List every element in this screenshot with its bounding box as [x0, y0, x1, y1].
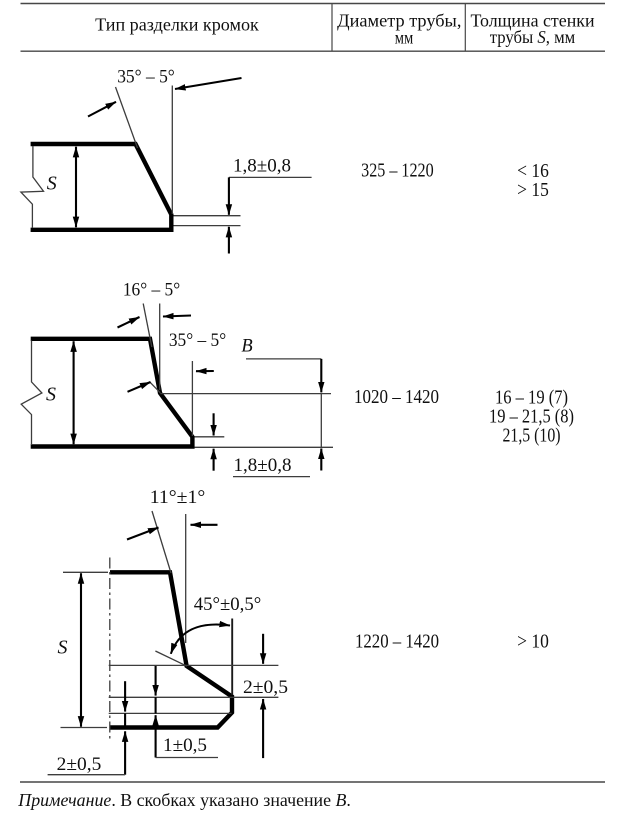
svg-text:325 – 1220: 325 – 1220: [361, 160, 434, 182]
row2 35deg junction arrow: [128, 382, 151, 392]
svg-text:2±0,5: 2±0,5: [57, 754, 102, 775]
svg-text:35° – 5°: 35° – 5°: [169, 330, 226, 351]
row1 dimension up arrow: [228, 227, 230, 254]
row2 16deg arrow left: [118, 317, 140, 328]
svg-text:B: B: [241, 337, 252, 357]
row3 nose height up arrow: [155, 715, 157, 757]
svg-text:Тип разделки кромок: Тип разделки кромок: [95, 14, 259, 34]
svg-text:1±0,5: 1±0,5: [163, 735, 207, 756]
row3 horizontal line at nose bottom: [109, 712, 232, 714]
svg-text:> 15: > 15: [517, 179, 549, 201]
row2 root gap down arrow: [213, 413, 215, 435]
row2 junction horizontal extension line (B top): [160, 393, 331, 395]
svg-text:35° – 5°: 35° – 5°: [117, 67, 175, 88]
row3 bottom gap down arrow: [124, 681, 126, 711]
table bottom rule: [20, 781, 605, 783]
svg-text:2±0,5: 2±0,5: [243, 677, 288, 698]
row3 11deg vertical reference line: [185, 514, 187, 643]
svg-text:Примечание. В скобках указано: Примечание. В скобках указано значение В…: [17, 790, 351, 810]
row3 right gap down arrow: [262, 634, 264, 664]
row3 bottom gap up arrow: [124, 731, 126, 774]
svg-text:S: S: [46, 384, 56, 406]
row3 11deg bevel extension line: [152, 511, 171, 573]
row1 dimension down arrow: [228, 177, 230, 214]
row3 horizontal line at nose top: [109, 696, 279, 698]
row1 angle arrow left: [88, 102, 116, 117]
row2 root gap label underline: [233, 476, 310, 478]
row1 root face upper extension line: [174, 215, 241, 217]
row2 16deg arrow right: [163, 316, 191, 317]
row3 nose height down arrow: [155, 666, 157, 696]
row3 nose face extension line: [231, 619, 233, 696]
row3 bottom gap leader: [48, 774, 126, 776]
row2 B dimension connector line: [320, 394, 322, 448]
row1 angle arrow right: [175, 78, 242, 89]
row2 35deg vertical reference line: [191, 361, 193, 436]
row3 45deg chamfer extension line: [155, 651, 187, 666]
svg-text:1020 – 1420: 1020 – 1420: [354, 386, 439, 408]
row2 root face upper extension line: [195, 436, 225, 438]
svg-text:мм: мм: [395, 28, 414, 48]
row2 B down arrow: [320, 359, 322, 393]
table top rule: [21, 3, 606, 5]
row3 right gap up arrow: [262, 699, 264, 758]
row2 bottom extension line: [195, 446, 334, 448]
row3 pipe edge outline: [110, 572, 232, 727]
row1 wall thickness dimension arrow S: [75, 147, 77, 227]
row1 pipe edge outline: [31, 144, 172, 230]
svg-text:1220 – 1420: 1220 – 1420: [355, 630, 439, 652]
svg-text:S: S: [47, 173, 57, 195]
row3 nose height label underline: [156, 757, 218, 759]
row2 35deg bevel extension line: [150, 382, 161, 393]
svg-text:> 10: > 10: [517, 630, 549, 652]
row2 16deg vertical reference line: [159, 304, 161, 391]
row2 left break (zigzag): [21, 341, 42, 446]
svg-text:1,8±0,8: 1,8±0,8: [233, 156, 291, 177]
row2 wall thickness dimension arrow S: [73, 341, 75, 444]
row2 16deg bevel extension line: [143, 304, 152, 348]
row2 root gap up arrow: [213, 449, 215, 471]
row2 B up arrow: [320, 449, 322, 471]
row3 nose height connector line: [155, 697, 157, 713]
row3 11deg arrow right: [191, 524, 218, 526]
header column separator 1: [331, 4, 333, 52]
row1 vertical angle reference line: [171, 86, 173, 215]
svg-text:трубы S, мм: трубы S, мм: [490, 27, 576, 47]
svg-text:11°±1°: 11°±1°: [150, 487, 206, 508]
row1 left break (zigzag): [21, 146, 44, 228]
row1 root face lower extension line: [174, 225, 241, 227]
svg-text:45°±0,5°: 45°±0,5°: [194, 594, 262, 615]
row3 45deg curved double arrow: [171, 625, 230, 654]
row3 wall thickness dimension arrow S: [80, 573, 82, 727]
header column separator 2: [464, 4, 466, 52]
svg-text:S: S: [58, 637, 68, 659]
svg-text:16° – 5°: 16° – 5°: [123, 280, 180, 301]
row2 pipe edge outline: [31, 339, 193, 447]
row1 dimension leader horizontal: [229, 176, 312, 178]
table header bottom rule: [21, 50, 606, 52]
row3 pipe axis centerline: [109, 558, 111, 741]
row3 S top extension line: [63, 571, 108, 573]
row2 B leader horizontal: [246, 358, 321, 360]
svg-text:1,8±0,8: 1,8±0,8: [234, 455, 292, 476]
svg-text:21,5 (10): 21,5 (10): [503, 424, 561, 446]
row2 35deg arrow right: [196, 370, 214, 372]
row3 horizontal line at chamfer root: [109, 664, 279, 666]
row3 bottom gap connector line: [124, 713, 126, 727]
row1 bevel extension line: [116, 87, 138, 148]
row3 S bottom extension line: [61, 727, 108, 729]
row3 11deg arrow left: [127, 528, 159, 540]
